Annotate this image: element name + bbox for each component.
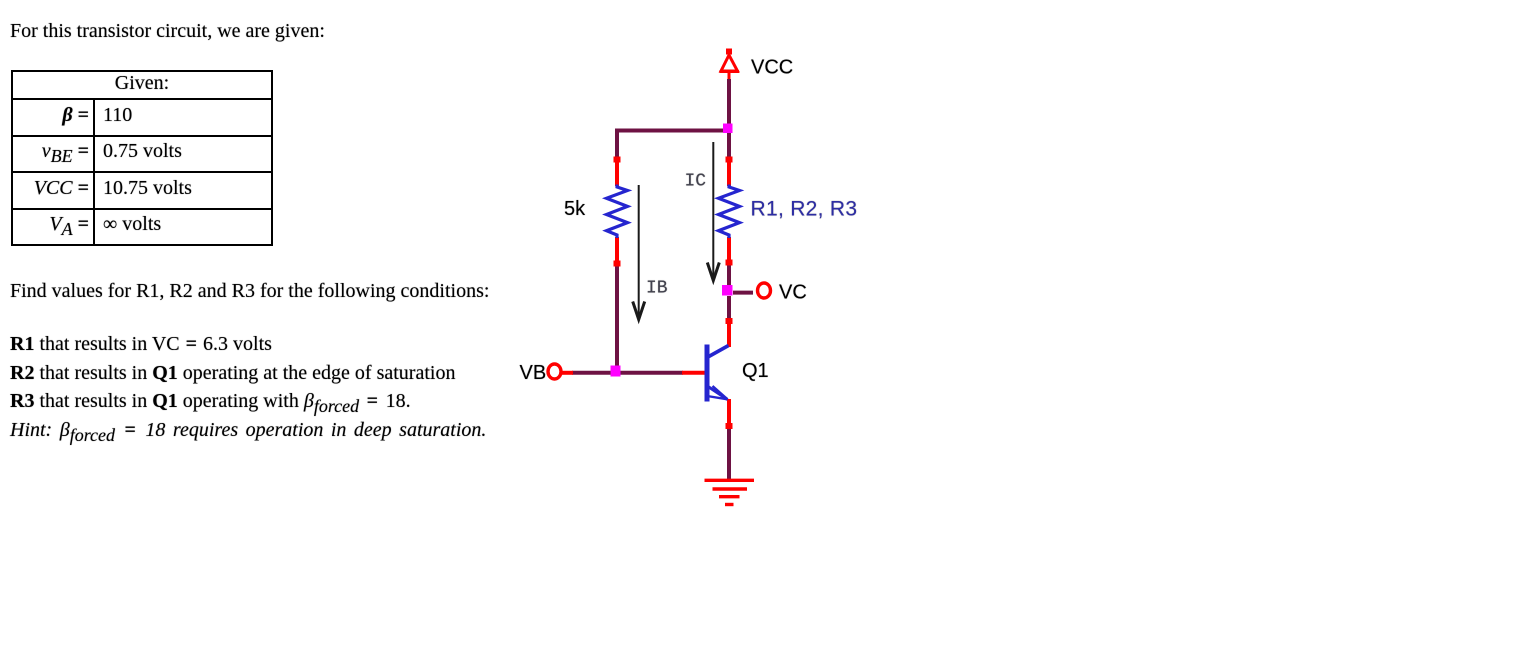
svg-text:IC: IC	[685, 172, 707, 192]
svg-text:Q1: Q1	[742, 360, 769, 382]
svg-text:VB: VB	[520, 362, 547, 384]
svg-text:VCC: VCC	[751, 57, 793, 79]
svg-text:R1, R2, R3: R1, R2, R3	[751, 198, 858, 221]
svg-text:IB: IB	[646, 279, 668, 299]
svg-text:VC: VC	[779, 282, 807, 304]
svg-text:5k: 5k	[564, 198, 586, 220]
